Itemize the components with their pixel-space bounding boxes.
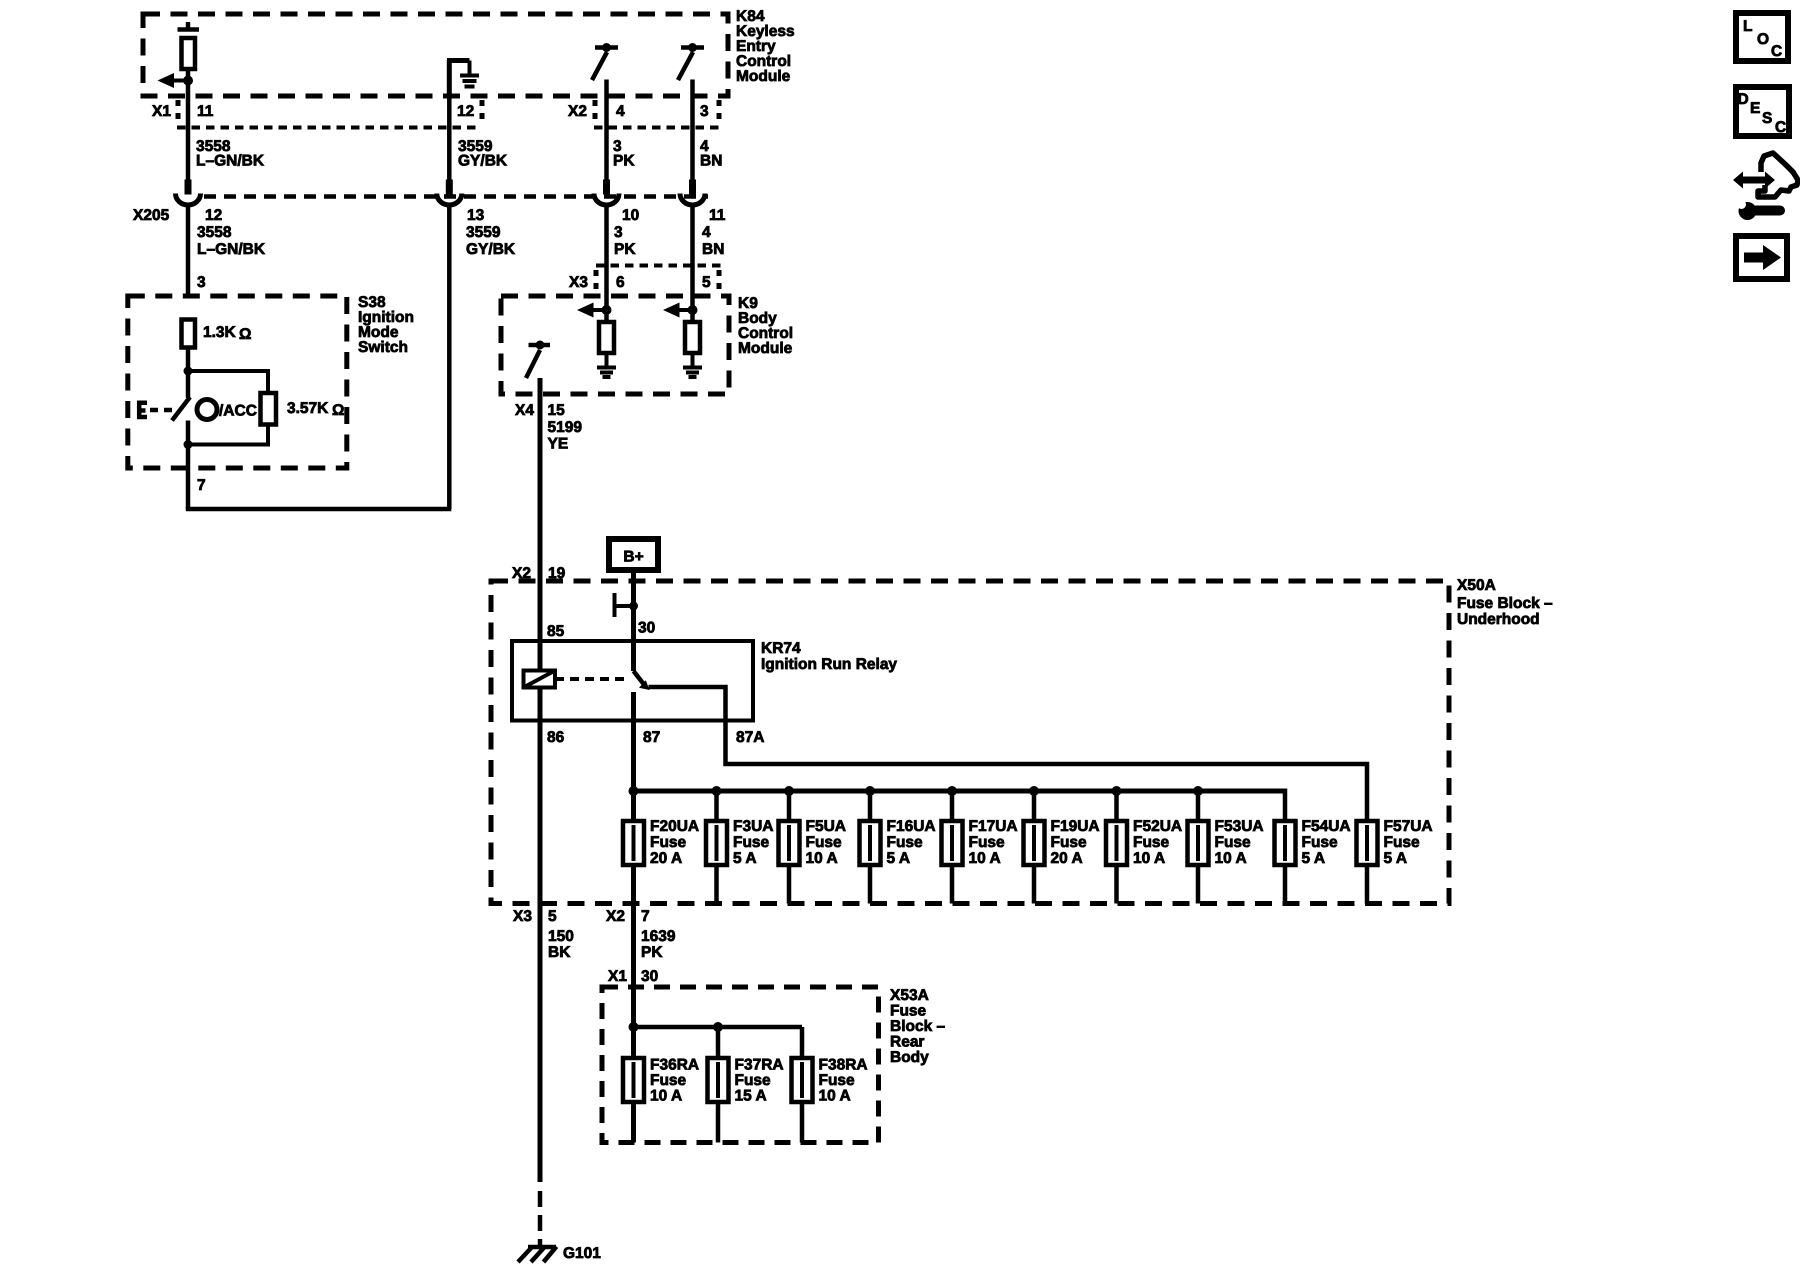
svg-text:Fuse: Fuse [1133,834,1170,851]
label X53A Fuse Block Rear Body [890,987,946,1066]
svg-text:5: 5 [548,908,557,925]
svg-text:Fuse: Fuse [969,834,1006,851]
svg-text:F54UA: F54UA [1302,818,1351,835]
svg-text:86: 86 [547,729,565,746]
wire relay coil 86 down [538,688,543,904]
dashed wire to G101 [538,1191,543,1246]
svg-text:F37RA: F37RA [735,1057,784,1074]
fuse F19UA 20 A [1024,791,1100,904]
svg-text:10: 10 [622,207,639,224]
svg-text:Fuse: Fuse [650,834,687,851]
svg-text:1639: 1639 [641,928,676,945]
fuse F3UA 5 A [706,791,773,904]
svg-text:/ACC: /ACC [219,403,257,420]
value label 3.57K ohm [287,400,344,419]
svg-text:30: 30 [638,620,655,637]
fuse F5UA 10 A [779,791,846,904]
svg-text:X4: X4 [515,402,534,419]
svg-text:D: D [1738,91,1749,108]
svg-text:Fuse: Fuse [1051,834,1088,851]
bus corner down to F54UA [1283,789,1288,822]
svg-text:13: 13 [467,207,485,224]
svg-text:X2: X2 [568,103,587,120]
switch inside K84 on pin 4 branch [592,43,618,80]
svg-text:Fuse: Fuse [1302,834,1339,851]
arrow signal continuation left K9 pin 6 [577,303,607,318]
svg-text:Block –: Block – [890,1018,946,1035]
connector X1 pin 30 labels at X53A [608,968,658,985]
svg-text:Fuse: Fuse [806,834,843,851]
svg-text:BN: BN [700,153,722,170]
node junction K9 pin 5 [688,305,698,315]
svg-text:G101: G101 [563,1245,601,1262]
svg-text:Module: Module [738,340,793,357]
wire from X205 pin 10 down into K9 [604,206,609,323]
wire label 1639 PK [641,928,676,961]
svg-text:Body: Body [890,1049,929,1066]
svg-text:X50A: X50A [1457,577,1496,594]
svg-text:PK: PK [641,944,663,961]
wire label 150 BK [548,928,574,961]
svg-text:Ignition Run Relay: Ignition Run Relay [761,656,897,673]
fuse F16UA 5 A [860,791,936,904]
svg-text:3: 3 [700,103,709,120]
svg-text:10 A: 10 A [650,1088,682,1105]
node junction on pin 11 wire [183,76,193,86]
svg-text:12: 12 [457,103,474,120]
icon arrow box [1736,236,1787,279]
svg-text:11: 11 [709,207,726,224]
fuse F57UA 5 A [1357,818,1433,904]
position indicator circle O/ACC [197,400,257,420]
relay KR74 Ignition Run Relay box [512,641,753,721]
svg-text:5 A: 5 A [733,850,757,867]
terminal X205 pin 10 [603,180,610,195]
svg-text:GY/BK: GY/BK [458,153,508,170]
wire 1639 PK trunk through F20UA down to X53A [631,791,636,1143]
detent box inside S38 [184,367,269,450]
fuse F37RA 15 A [708,1027,784,1143]
connector X1 label row [152,100,482,128]
svg-text:3558: 3558 [197,224,232,241]
svg-text:5 A: 5 A [1384,850,1408,867]
module K9 Body Control Module dashed box [501,296,729,394]
svg-text:Fuse: Fuse [650,1072,687,1089]
svg-text:Fuse: Fuse [887,834,924,851]
svg-text:B+: B+ [623,549,643,566]
svg-text:S: S [1762,110,1772,127]
svg-text:X1: X1 [152,103,171,120]
svg-text:30: 30 [641,968,658,985]
svg-text:X1: X1 [608,968,627,985]
svg-text:15 A: 15 A [735,1088,767,1105]
ground symbol K9 pin 6 [597,368,616,378]
arrow signal continuation left, K84 pin 11 [158,73,189,88]
svg-text:7: 7 [641,908,650,925]
svg-text:F38RA: F38RA [819,1057,868,1074]
wire 150 BK down to G101 [538,904,543,1183]
svg-text:3: 3 [197,274,206,291]
wire relay 87 down to fuse bus [631,692,636,791]
wire inside S38 from resistor to switch [186,348,191,399]
svg-text:15: 15 [548,402,566,419]
icon double arrow with outline and wrench [1733,153,1798,220]
svg-text:5 A: 5 A [887,850,911,867]
resistor 3.57K on S38 detent box edge [261,393,277,425]
connector X2 label row [568,100,720,128]
connector X3 label row [569,266,722,294]
svg-text:Underhood: Underhood [1457,611,1540,628]
svg-text:F52UA: F52UA [1133,818,1182,835]
svg-text:10 A: 10 A [806,850,838,867]
junction dots X53A bus [629,1022,639,1032]
terminal X205 pin 13 [446,180,453,195]
label K84 Keyless Entry Control Module [736,8,795,85]
svg-text:E: E [1750,100,1760,117]
svg-text:20 A: 20 A [650,850,682,867]
wire 3558 from K84 resistor down to X205 [186,69,191,180]
icon DESC box [1736,87,1789,136]
resistor 1.3K inside S38 [182,320,196,348]
svg-text:O: O [1757,31,1769,48]
fuse F52UA 10 A [1106,791,1182,904]
module K84 Keyless Entry Control Module dashed box [143,14,728,96]
svg-text:Fuse: Fuse [819,1072,856,1089]
connector X2 pin 7 labels below fuse block [606,908,650,925]
wire B+ down to relay pin 30 [631,573,636,671]
fuse bus from relay 87 [634,789,1286,794]
svg-text:20 A: 20 A [1051,850,1083,867]
dashed mechanical link KR74 [555,677,628,681]
wire from X205 pin 13 down to junction with S38 pin 7 [447,206,452,510]
svg-text:L–GN/BK: L–GN/BK [197,241,266,258]
value label 1.3K ohm [203,324,251,343]
svg-text:3559: 3559 [466,224,501,241]
resistor inside K9 pin 6 branch [599,322,614,353]
svg-text:Fuse: Fuse [890,1003,927,1020]
svg-text:C: C [1771,43,1782,60]
wire from S38 switch down to pin 7 [186,421,191,510]
fuse F36RA 10 A [623,1057,699,1105]
svg-text:PK: PK [613,153,635,170]
svg-text:5199: 5199 [548,419,583,436]
svg-text:Module: Module [736,68,791,85]
svg-text:87A: 87A [736,729,764,746]
label KR74 Ignition Run Relay [761,640,897,673]
svg-text:4: 4 [616,103,625,120]
fuse F20UA 20 A [650,818,699,867]
svg-text:150: 150 [548,928,574,945]
fuse F17UA 10 A [942,791,1018,904]
terminal X205 pin 11 [689,180,696,195]
svg-text:F36RA: F36RA [650,1057,699,1074]
label S38 Ignition Mode Switch [358,294,414,356]
fuse F38RA 10 A [792,1027,868,1143]
svg-text:X53A: X53A [890,987,929,1004]
resistor inside K9 pin 5 branch [685,322,700,353]
svg-text:Rear: Rear [890,1034,924,1051]
fuse F20UA body [623,821,644,865]
wire label 5199 YE [548,419,583,453]
switch blade S38 [172,397,190,421]
svg-text:10 A: 10 A [819,1088,851,1105]
svg-text:F20UA: F20UA [650,818,699,835]
svg-text:85: 85 [547,623,565,640]
connector X3 pin 5 labels below fuse block [513,908,557,925]
svg-text:L: L [1743,18,1752,35]
svg-text:11: 11 [197,103,214,120]
relay coil KR74 [524,671,556,688]
connector X2 pin 19 labels [512,565,566,582]
ground symbol K9 pin 5 [683,368,702,378]
svg-text:F16UA: F16UA [887,818,936,835]
svg-text:7: 7 [197,477,206,494]
ground symbol inside K84 on pin 12 branch [447,61,479,97]
svg-text:L–GN/BK: L–GN/BK [196,153,265,170]
wire relay 87A to F57UA [649,687,1368,821]
svg-text:BN: BN [702,241,724,258]
svg-text:X205: X205 [133,207,170,224]
svg-text:F5UA: F5UA [806,818,846,835]
svg-text:Fuse: Fuse [1384,834,1421,851]
icon LOC box [1736,13,1788,61]
junction dots on fuse bus [629,786,1204,796]
svg-text:12: 12 [205,207,222,224]
svg-text:F57UA: F57UA [1384,818,1433,835]
wire resistor to ground K9 pin 6 [605,353,609,368]
arrow signal continuation left K9 pin 5 [663,303,693,318]
svg-text:3.57K: 3.57K [287,400,329,417]
wire from X205 pin 12 down to S38 [186,206,191,297]
wire 5199 YE from K9 switch down to relay [538,378,543,671]
svg-text:5 A: 5 A [1302,850,1326,867]
svg-text:PK: PK [614,241,636,258]
svg-text:4: 4 [702,224,711,241]
switch inside K9 output X4-15 [526,341,550,379]
svg-text:KR74: KR74 [761,640,801,657]
svg-text:F53UA: F53UA [1215,818,1264,835]
relay switch blade KR74 [634,671,650,690]
fuse F54UA 5 A [1275,818,1351,904]
svg-text:Fuse Block –: Fuse Block – [1457,595,1553,612]
connector X4 pin 15 labels [515,402,565,419]
svg-text:Ω: Ω [332,402,344,419]
node junction K9 pin 6 [602,305,612,315]
wire from X205 pin 11 down into K9 [690,206,695,323]
svg-text:F17UA: F17UA [969,818,1018,835]
svg-text:BK: BK [548,944,571,961]
svg-text:F3UA: F3UA [733,818,773,835]
wire resistor to ground K9 pin 5 [691,353,695,368]
svg-text:Fuse: Fuse [735,1072,772,1089]
chassis ground G101 [518,1247,557,1263]
svg-text:YE: YE [548,436,569,453]
switch inside K84 on pin 3 branch [678,43,704,80]
battery feed B+ box [609,539,658,570]
connector X205 inline row dashed line [204,194,708,199]
terminal symbol at relay pin 30 feed [615,593,639,617]
fuse F53UA 10 A [1188,791,1264,904]
svg-text:Ω: Ω [239,326,251,343]
contact E with dashed link S38 [137,401,177,420]
wire link S38 pin 7 to 3559 wire [186,507,452,512]
wire 3 PK from K84 switch to X205 [604,80,609,180]
svg-text:GY/BK: GY/BK [466,241,516,258]
terminal X205 pin 12 [185,180,192,195]
svg-text:C: C [1775,119,1786,136]
svg-text:X3: X3 [569,274,588,291]
label K9 Body Control Module [738,295,793,357]
label X50A Fuse Block Underhood [1457,577,1553,628]
svg-text:X3: X3 [513,908,532,925]
svg-text:10 A: 10 A [1133,850,1165,867]
svg-text:X2: X2 [606,908,625,925]
wire 3559 from K84 ground down to X205 [447,96,452,180]
svg-text:10 A: 10 A [969,850,1001,867]
pin labels X205 [205,207,726,224]
bus inside X53A [634,1025,803,1030]
svg-text:5: 5 [702,274,711,291]
resistor inside K84 on pin 11 branch [178,22,200,69]
module X53A Fuse Block Rear Body dashed box [602,987,879,1143]
svg-text:Fuse: Fuse [733,834,770,851]
svg-text:87: 87 [643,729,660,746]
module X50A Fuse Block Underhood dashed box [491,581,1449,904]
module S38 Ignition Mode Switch dashed box [128,296,347,468]
svg-text:Fuse: Fuse [1215,834,1252,851]
svg-text:Switch: Switch [358,339,408,356]
svg-text:1.3K: 1.3K [203,324,237,341]
wire 4 BN from K84 switch to X205 [690,80,695,180]
svg-text:F19UA: F19UA [1051,818,1100,835]
svg-text:3: 3 [614,224,623,241]
svg-text:6: 6 [616,274,625,291]
svg-text:10 A: 10 A [1215,850,1247,867]
